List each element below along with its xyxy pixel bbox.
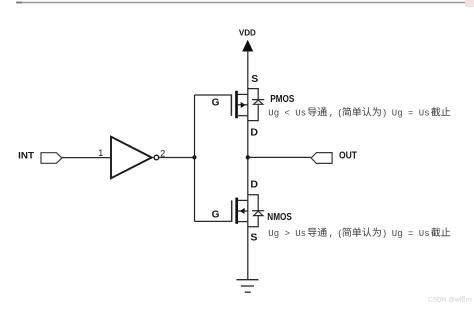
annotation NMOS condition text [268, 227, 450, 238]
wire INT to inverter [62, 157, 111, 159]
port INT [18, 150, 62, 163]
transistor Q1 PMOS [231, 89, 264, 121]
wire VDD to ground (main vertical) [247, 51, 249, 279]
svg-text:rn: rn [466, 297, 472, 304]
wire gate loop bottom (NMOS gate wire) [195, 220, 232, 222]
inverter U1 [111, 137, 159, 179]
svg-text:VDD: VDD [239, 27, 256, 37]
svg-text:Ug > Us: Ug > Us [268, 229, 306, 239]
svg-text:S: S [250, 232, 257, 244]
wire gate loop vertical [194, 95, 196, 221]
wire gate loop top (PMOS gate wire) [195, 94, 232, 96]
svg-text:,: , [329, 109, 334, 119]
wire inverter output to gate node [159, 157, 195, 159]
svg-text:INT: INT [18, 150, 34, 161]
watermark CSDN [428, 296, 472, 303]
svg-text:Ug = Us: Ug = Us [392, 109, 430, 119]
node gate junction [192, 155, 196, 159]
transistor Q2 NMOS [232, 195, 265, 227]
svg-text:): ) [382, 229, 387, 239]
svg-text:G: G [212, 98, 220, 109]
svg-text:OUT: OUT [339, 150, 357, 161]
svg-text:(: ( [337, 229, 342, 239]
svg-text:CSDN @w: CSDN @w [428, 297, 460, 304]
svg-text:PMOS: PMOS [270, 93, 294, 105]
svg-text:Ug = Us: Ug = Us [392, 229, 430, 239]
svg-text:G: G [212, 209, 220, 220]
power VDD [239, 27, 256, 51]
svg-text:(: ( [337, 109, 342, 119]
annotation PMOS condition text [268, 107, 450, 118]
svg-text:): ) [382, 109, 387, 119]
wire output to OUT port [248, 156, 311, 158]
svg-text:S: S [251, 73, 258, 85]
node output junction [246, 155, 250, 159]
svg-text:1: 1 [98, 148, 103, 158]
svg-text:NMOS: NMOS [267, 211, 292, 223]
ground [237, 280, 259, 293]
svg-text:,: , [329, 229, 334, 239]
svg-text:Ug < Us: Ug < Us [268, 109, 306, 119]
port OUT [311, 150, 357, 163]
top rule line [16, 2, 466, 4]
svg-text:D: D [250, 126, 258, 138]
svg-text:D: D [250, 178, 258, 190]
